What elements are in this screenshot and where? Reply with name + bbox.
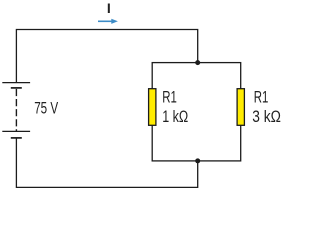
resistor R1 (3 kOhm) body: [237, 89, 244, 126]
dashed link between cells: [15, 89, 17, 131]
wire left-top: battery positive up left side, across top, down to node A: [16, 30, 197, 83]
svg-text:3 kΩ: 3 kΩ: [252, 107, 281, 126]
svg-text:I: I: [107, 0, 111, 16]
node B junction dot (bottom): [195, 158, 200, 163]
svg-text:1 kΩ: 1 kΩ: [162, 107, 188, 126]
battery plate short (cell 1 negative): [11, 87, 22, 89]
current arrow: [98, 19, 118, 24]
svg-text:R1: R1: [162, 88, 177, 107]
battery plate long (cell 1 positive): [2, 82, 30, 84]
battery plate long (cell 2 positive): [2, 130, 30, 132]
battery plate short (cell 2 negative): [11, 137, 22, 139]
svg-text:R1: R1: [254, 88, 269, 107]
svg-text:75 V: 75 V: [34, 99, 58, 118]
wire bottom: battery negative down left side, across bottom, up to node B: [16, 138, 197, 188]
resistor R1 (1 kOhm) body: [149, 89, 156, 126]
wire parallel loop rails and branches: [152, 63, 241, 161]
battery B1 (multi-cell, 75 V): [2, 83, 30, 138]
node A junction dot (top): [195, 60, 200, 65]
